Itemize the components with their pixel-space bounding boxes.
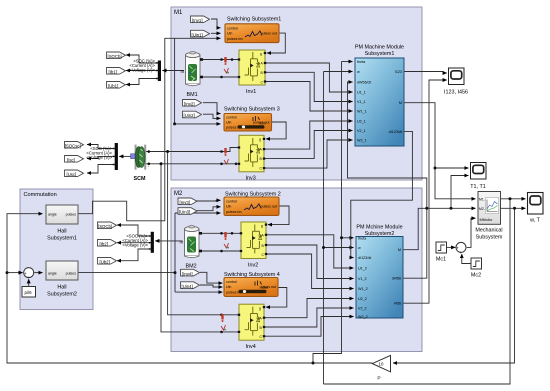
node: rail taps — [220, 58, 223, 61]
wire: theta feedback vertical — [313, 62, 342, 364]
svg-text:theta: theta — [357, 60, 366, 64]
wire: from tag Inv1 to SS1 input 1 — [211, 19, 221, 28]
node: SCM - branch — [160, 162, 163, 165]
sensor set SCM/Inv4 — [221, 314, 226, 331]
inverter Inv4 — [238, 304, 265, 350]
svg-text:[Inv1]: [Inv1] — [192, 18, 203, 23]
battery BM2 — [180, 226, 203, 270]
sum block (torque) — [456, 242, 466, 254]
node: torque2 branch — [450, 207, 453, 210]
wire: Inv1 C to PM1 W1_1 — [265, 82, 353, 112]
sensor set BM1/Inv1 — [224, 57, 229, 74]
svg-text:m: m — [180, 240, 184, 245]
wire: from tag Inv4 to SS4 input 1 — [200, 272, 223, 283]
svg-text:U2_1: U2_1 — [357, 120, 366, 124]
wire: Inv1 A to PM1 U1_1 — [265, 63, 353, 92]
svg-text:W2_1: W2_1 — [357, 139, 367, 143]
from tag Uin3 — [178, 208, 197, 215]
svg-text:<Voltage (V)>: <Voltage (V)> — [122, 243, 148, 248]
wire: Inv3 B to PM1 V2_1 — [264, 131, 353, 159]
gain P — [372, 355, 390, 381]
wire: SCM measurement bus to bus selector 2 — [119, 155, 131, 157]
svg-text:pulses inv: pulses inv — [226, 210, 242, 214]
node: hall1 branch — [173, 122, 176, 125]
from tag Inv4 — [181, 269, 200, 276]
wire: Inv2 A to PM2 U1_2 — [266, 235, 354, 268]
svg-text:g: g — [261, 224, 263, 228]
node: theta tap — [312, 362, 315, 365]
wire: bus selector 2 to goto Isc — [87, 156, 115, 158]
supercapacitor SCM — [131, 145, 151, 182]
scope T1, T1 — [470, 163, 486, 191]
svg-text:[Uin1]: [Uin1] — [192, 32, 203, 37]
scope w, T — [528, 193, 544, 224]
svg-text:Hall: Hall — [57, 229, 66, 235]
svg-text:W1_1: W1_1 — [357, 110, 367, 114]
svg-text:[Uin4]: [Uin4] — [182, 284, 193, 289]
wire: Mc1 step to sum — [446, 246, 455, 248]
svg-text:PM Mchine Module: PM Mchine Module — [356, 225, 402, 231]
svg-text:Mc2: Mc2 — [471, 273, 481, 279]
wire: from tag Inv3 to SS2 input 1 — [197, 199, 221, 202]
node: hall2 branch — [174, 271, 177, 274]
wire: Mc2 step to sum — [462, 254, 471, 264]
svg-text:W1_2: W1_2 — [358, 287, 368, 291]
wire: theta feedback down to gain P — [393, 208, 515, 363]
sum block (commutation) — [24, 268, 34, 280]
node: SCM + branch — [166, 150, 169, 153]
subsystem area Commutation — [20, 189, 93, 310]
svg-text:[Isc]: [Isc] — [67, 158, 75, 163]
goto tag SOCsc — [65, 142, 84, 149]
subsystem area M1 — [171, 7, 422, 180]
wire: Inv4 B to PM2 V2_2 — [264, 308, 354, 327]
svg-text:[Uin2]: [Uin2] — [184, 113, 195, 118]
wire: bus selector 2 to goto Usc — [87, 165, 115, 174]
wire: from tag Uin2 to SS3 input 2 — [203, 114, 221, 118]
wire: PM1 I123 to scope — [404, 72, 447, 74]
svg-text:BM1: BM1 — [187, 92, 198, 98]
svg-text:I456: I456 — [394, 302, 401, 306]
svg-text:dI456: dI456 — [392, 277, 401, 281]
inverter Inv1 — [238, 50, 266, 95]
sensor set BM2/Inv2 — [224, 232, 229, 249]
svg-text:w, T: w, T — [529, 218, 540, 224]
from tag Uin1 — [191, 30, 210, 37]
svg-text:dI123/dt: dI123/dt — [389, 130, 402, 134]
goto tag Ub1 — [107, 82, 126, 89]
svg-text:I123: I123 — [395, 70, 402, 74]
svg-text:pulses: pulses — [66, 213, 77, 217]
bus signal labels group 3 — [122, 234, 148, 248]
svg-text:Switching Subsystem1: Switching Subsystem1 — [227, 17, 281, 23]
inverter Inv2 — [240, 222, 267, 269]
svg-text:control: control — [226, 280, 237, 284]
wire: bus selector 1 to goto SOCb — [126, 55, 158, 63]
svg-text:angle: angle — [48, 272, 57, 276]
goto tag Ib2 — [98, 240, 117, 247]
svg-text:[Ub2]: [Ub2] — [100, 260, 110, 265]
wire: bus selector 1 to goto Ib1 — [126, 70, 158, 72]
node: torque branch — [434, 167, 437, 170]
svg-text:V2m: V2m — [261, 286, 268, 290]
wire: PM1 torque M to Mechanical M1 — [404, 103, 476, 199]
svg-text:[Inv2]: [Inv2] — [184, 102, 195, 107]
subsystem area M2 — [171, 188, 422, 352]
PM machine module Subsystem1 — [355, 45, 404, 147]
svg-text:[Ib1]: [Ib1] — [109, 70, 117, 75]
wire: branch to scope T1 input2 — [451, 176, 469, 209]
wire: pi/6 constant into sum — [28, 279, 30, 286]
svg-text:Inv2: Inv2 — [248, 263, 258, 269]
goto tag SOCb2 — [98, 222, 117, 229]
hall subsystem 1 — [46, 205, 78, 242]
switching subsystem SS4 — [224, 272, 280, 296]
node: theta out branch — [513, 207, 516, 210]
step source Mc2 — [471, 258, 482, 279]
svg-text:U1_2: U1_2 — [358, 267, 367, 271]
wire: gain P output feedback to Commutation (electrical angle) — [7, 214, 372, 363]
svg-text:g: g — [259, 138, 261, 142]
wire: hall1 pulses to Switching Subsystem 3 input 3 — [175, 123, 221, 125]
wire: BM2 + rail to Inv2 — [202, 232, 241, 234]
wire: w feedback down and along bottom — [324, 199, 511, 384]
step source Mc1 — [436, 242, 447, 263]
svg-text:V2_1: V2_1 — [357, 129, 366, 133]
svg-text:Mc1: Mc1 — [436, 257, 446, 263]
node: theta to PM2 — [340, 236, 343, 239]
from tag Uin4 — [181, 282, 200, 289]
svg-text:Inv4: Inv4 — [246, 344, 256, 350]
svg-text:M1: M1 — [174, 10, 183, 16]
wire: Inv4 C to PM2 W2_2 — [264, 317, 354, 337]
wire: SCM + rail to Inv3 — [146, 148, 239, 152]
wire: Inv3 C to PM1 W2_1 — [264, 140, 353, 168]
switching subsystem SS2 — [224, 192, 281, 216]
svg-text:V2m: V2m — [259, 122, 266, 126]
svg-text:U2_2: U2_2 — [358, 297, 367, 301]
wire: SCM + down to Inv4 — [168, 152, 239, 315]
wire: from tag Uin1 to SS1 input 2 — [211, 32, 221, 34]
wire: from tag Uin4 to SS4 input 2 — [200, 285, 223, 287]
svg-text:Subsystem1: Subsystem1 — [47, 236, 77, 242]
svg-text:+: + — [459, 250, 462, 255]
svg-text:[SOCb]: [SOCb] — [98, 224, 112, 229]
wire: BM1 + rail to Inv1 — [203, 59, 239, 61]
svg-text:W2_2: W2_2 — [358, 315, 368, 319]
wire: Mechanical theta output to scope w,T — [501, 207, 526, 209]
svg-text:Subsystem: Subsystem — [476, 235, 503, 241]
svg-text:[Ib2]: [Ib2] — [100, 242, 108, 247]
goto tag Ib1 — [107, 68, 126, 75]
wire: Inv3 A to PM1 U2_1 — [264, 121, 353, 149]
wire: PM2 torque M to Mechanical M2 — [403, 208, 476, 249]
svg-text:[Ub1]: [Ub1] — [108, 84, 118, 89]
from tag Uin2 — [183, 111, 202, 118]
svg-text:Inv3: Inv3 — [246, 176, 256, 182]
svg-text:Mechanical: Mechanical — [475, 228, 502, 234]
goto tag Isc — [65, 156, 84, 163]
wire: SS4 pulses out to Inv4 gate — [266, 288, 287, 308]
svg-text:Commutation: Commutation — [24, 192, 57, 198]
svg-text:Hall: Hall — [57, 285, 66, 291]
wire: branch to scope T1 input1 — [435, 167, 469, 169]
from tag Inv3 — [178, 198, 197, 205]
svg-text:Subsystem1: Subsystem1 — [365, 51, 395, 57]
wire: SS3 pulses out to Inv3 gate — [266, 122, 286, 139]
wire: Inv2 B to PM2 V1_2 — [266, 245, 354, 279]
svg-text:10: 10 — [379, 362, 384, 367]
svg-text:U1_1: U1_1 — [357, 91, 366, 95]
svg-text:BM2: BM2 — [186, 264, 197, 270]
svg-text:Subsystem2: Subsystem2 — [47, 292, 77, 298]
wire: PM1 dI123/dt coupling to PM2 — [351, 131, 413, 257]
svg-text:dI123/dt: dI123/dt — [358, 256, 371, 260]
bus signal labels group 1 — [129, 59, 155, 73]
node: angle branch — [6, 271, 9, 274]
svg-text:P: P — [377, 376, 380, 382]
switching subsystem SS1 — [225, 17, 281, 43]
wire: BM2 - rail to Inv2 — [202, 250, 241, 252]
svg-text:Uin: Uin — [226, 285, 231, 289]
wire: Inv1 B to PM1 V1_1 — [265, 72, 353, 101]
svg-text:pulses out: pulses out — [261, 205, 277, 209]
wire: from tag Uin3 to SS2 input 2 — [197, 207, 221, 211]
wire: from tag Inv2 to SS3 input 1 — [203, 103, 221, 114]
wire: Mechanical w output to scope w,T — [501, 198, 526, 200]
svg-text:M: M — [398, 248, 401, 252]
wire: Hall Subsystem1 pulses up into M1 left gutter — [78, 38, 175, 221]
hall subsystem 2 — [46, 261, 78, 298]
svg-text:V2_2: V2_2 — [358, 307, 367, 311]
svg-text:I123, I456: I123, I456 — [444, 90, 468, 96]
svg-text:pulses: pulses — [66, 272, 77, 276]
svg-text:M1..: M1.. — [479, 197, 486, 201]
svg-text:<Voltage (V)>: <Voltage (V)> — [129, 68, 155, 73]
svg-text:Inv1: Inv1 — [246, 89, 256, 95]
sensor set SCM/Inv3 — [224, 148, 229, 165]
svg-text:w: w — [357, 70, 360, 74]
bus signal labels group 2 — [86, 146, 112, 160]
wire: PM2 dI456 coupling to PM1 dW56/dt — [348, 82, 427, 278]
from tag Inv2 — [183, 100, 202, 107]
svg-text:[Inv4]: [Inv4] — [182, 271, 193, 276]
PM machine module Subsystem2 — [356, 225, 403, 320]
wire: w to PM1 — [324, 71, 353, 73]
svg-text:Uin: Uin — [226, 205, 231, 209]
wire: bus selector 2 to goto SOCsc — [87, 145, 115, 149]
wire: bus selector 3 to goto Ub2 — [117, 249, 151, 261]
svg-text:[SOCb]: [SOCb] — [108, 54, 122, 59]
wire: bus selector 3 to goto Ib2 — [117, 242, 151, 244]
goto tag Usc — [65, 170, 84, 177]
wire: theta to PM2 — [342, 237, 354, 239]
switching subsystem SS3 — [224, 107, 280, 132]
wire: BM2 measurement bus to bus selector 3 — [155, 240, 182, 242]
svg-text:g: g — [259, 307, 261, 311]
svg-text:V1_1: V1_1 — [357, 100, 366, 104]
svg-text:dW56/dt: dW56/dt — [357, 81, 371, 85]
svg-text:Uin: Uin — [226, 120, 231, 124]
wire: w to PM2 — [324, 247, 354, 249]
svg-text:V1_2: V1_2 — [358, 277, 367, 281]
svg-text:[SOCsc]: [SOCsc] — [65, 144, 81, 149]
wire: Hall Subsystem2 pulses into M2 — [78, 272, 175, 274]
wire: SS1 pulses out to Inv1 gate — [267, 33, 285, 53]
wire: hall2 pulses to Switching Subsystem 4 input 3 — [175, 291, 223, 293]
goto tag SOCb — [107, 52, 126, 59]
svg-text:+: + — [27, 275, 30, 280]
wire: sum to Hall Subsystem2 — [34, 272, 42, 274]
svg-text:M: M — [399, 101, 402, 105]
wire: SS2 pulses out to Inv2 gate — [268, 206, 289, 225]
svg-text:T1, T1: T1, T1 — [470, 184, 485, 190]
svg-text:w: w — [358, 246, 361, 250]
wire: theta to PM1 — [342, 61, 353, 63]
svg-text:control: control — [226, 200, 237, 204]
bus selector 2 — [113, 143, 118, 170]
wire: BM1 - rail to Inv1 — [203, 76, 239, 78]
svg-text:theta: theta — [358, 237, 367, 241]
wire: hall2 pulses to Switching Subsystem 2 input 3 — [175, 212, 221, 214]
wire: SCM - down to Inv4 — [161, 164, 239, 332]
wire: Inv4 A to PM2 U2_2 — [264, 299, 354, 318]
junction nodes — [6, 58, 517, 364]
svg-text:M2: M2 — [174, 191, 183, 197]
svg-text:M2..: M2.. — [479, 207, 486, 211]
goto tag Ub2 — [98, 258, 117, 265]
svg-text:PM Machine Module: PM Machine Module — [355, 45, 404, 51]
wire: Inv2 C to PM2 W1_2 — [266, 254, 354, 289]
svg-text:g: g — [260, 52, 262, 56]
wire: hall1 pulses to Switching Subsystem1 input 3 — [175, 37, 221, 39]
constant pi/6 — [22, 287, 36, 298]
svg-text:control: control — [226, 116, 237, 120]
svg-text:m: m — [181, 69, 185, 74]
node: w out branch — [509, 197, 512, 200]
bus selector 3 — [149, 232, 154, 253]
svg-text:pi/6: pi/6 — [25, 290, 33, 295]
wire: branch to sum of Hall Subsystem2 — [7, 272, 23, 274]
bus selector 1 — [156, 61, 161, 82]
node: w to PM2 — [322, 246, 325, 249]
svg-text:Uin: Uin — [227, 32, 232, 36]
svg-text:angle: angle — [48, 213, 57, 217]
wire: hall2 pulses vertical inside M2 — [174, 213, 176, 292]
svg-text:control: control — [227, 27, 238, 31]
svg-text:[Usc]: [Usc] — [67, 172, 77, 177]
wire: w feedback vertical — [323, 72, 325, 385]
wire: SCM - rail to Inv3 — [146, 163, 239, 165]
wire: PM2 I456 up to scope — [403, 80, 447, 303]
svg-text:<Voltage (V)>: <Voltage (V)> — [86, 155, 112, 160]
svg-text:Switching Subsystem 3: Switching Subsystem 3 — [224, 107, 280, 113]
scope I123, I456 — [444, 68, 468, 96]
inverter Inv3 — [238, 135, 265, 181]
svg-text:pulses out: pulses out — [261, 32, 277, 36]
svg-text:pulses inv: pulses inv — [227, 37, 243, 41]
svg-text:[Inv3]: [Inv3] — [180, 200, 191, 205]
wire: sum to Mechanical Mfriction — [467, 218, 476, 247]
svg-text:SCM: SCM — [134, 176, 146, 182]
mechanical subsystem — [475, 192, 502, 241]
svg-text:Mfrictio: Mfrictio — [480, 217, 494, 222]
battery BM1 — [181, 52, 204, 98]
wire: bus selector 3 to goto SOCb2 — [117, 225, 151, 236]
from tag Inv1 — [191, 16, 210, 23]
wire: bus selector 1 to goto Ub1 — [126, 79, 158, 85]
svg-text:[Uin3]: [Uin3] — [179, 210, 190, 215]
wire: BM1 measurement bus to bus selector 1 — [162, 70, 184, 72]
